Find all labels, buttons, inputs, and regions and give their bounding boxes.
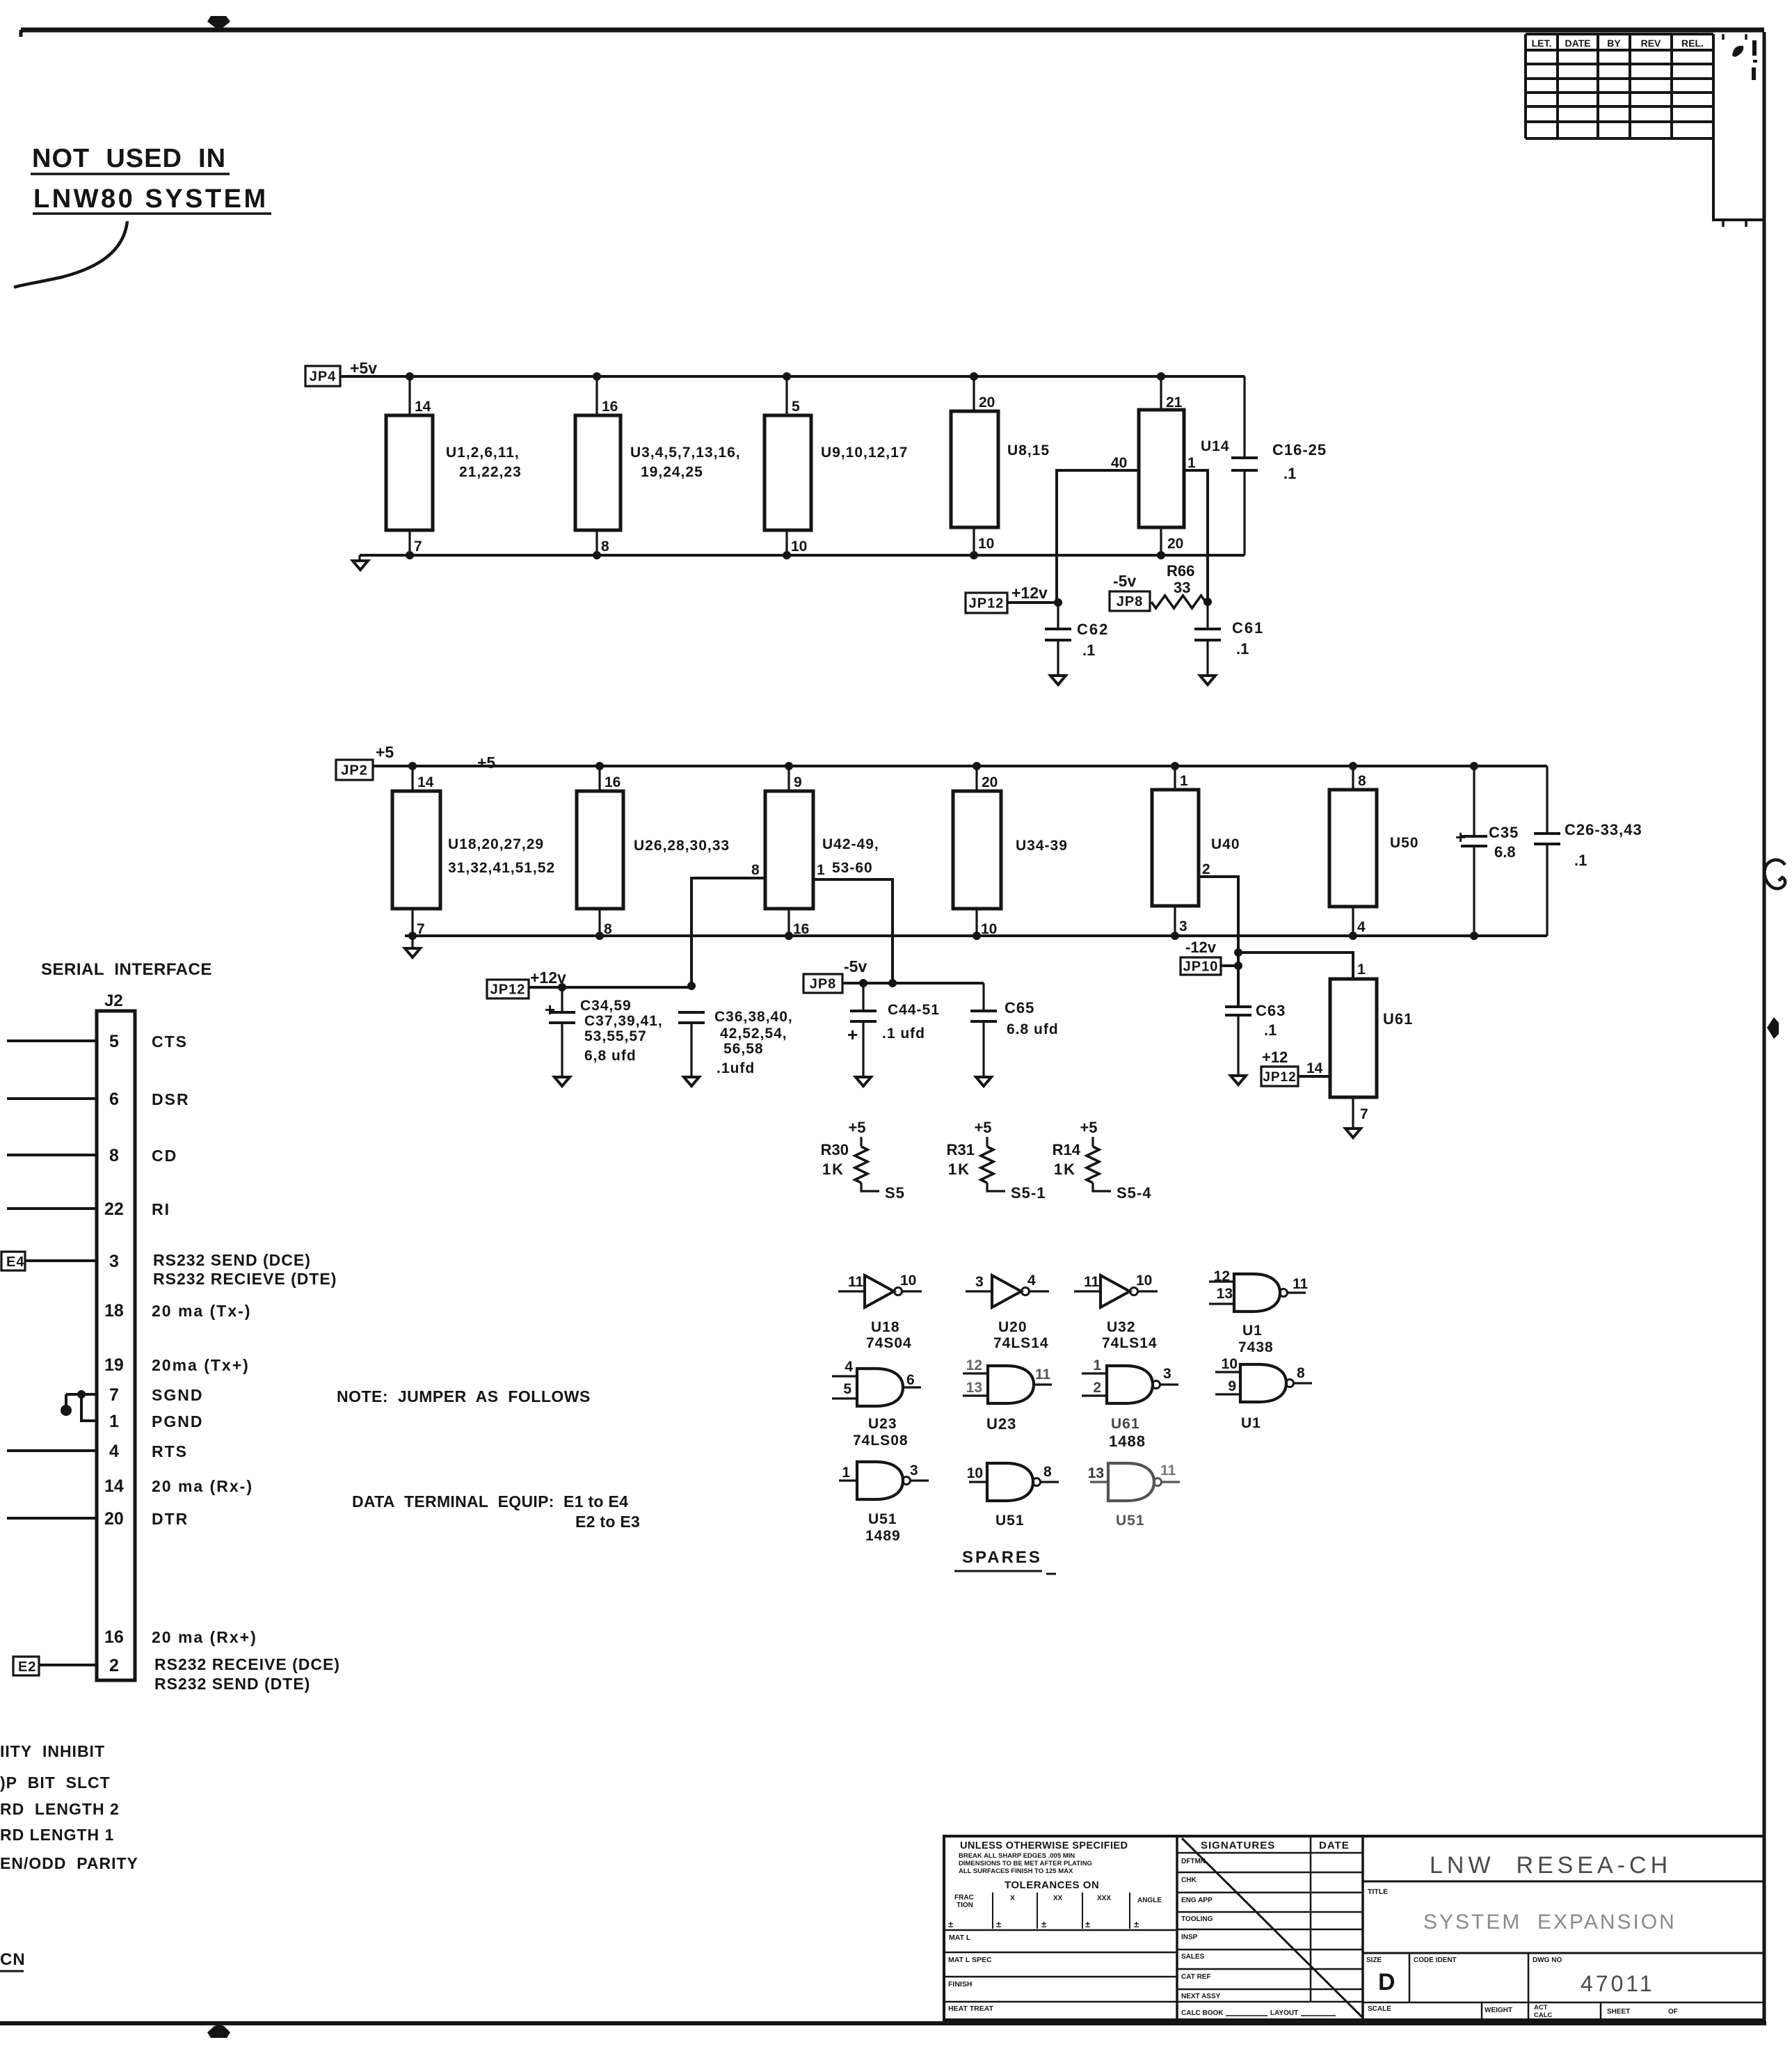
svg-text:20: 20 [979, 395, 995, 411]
capacitor C35 6.8 [1455, 766, 1519, 936]
jumper post E2 [13, 1657, 97, 1675]
svg-text:BY: BY [1607, 38, 1621, 49]
spare gate U51 (third) [1088, 1463, 1180, 1529]
capacitor C63 .1 [1225, 1002, 1286, 1076]
svg-text:R31: R31 [947, 1141, 975, 1158]
svg-text:20: 20 [104, 1509, 124, 1529]
svg-text:20ma (Tx+): 20ma (Tx+) [152, 1356, 250, 1374]
svg-text:U40: U40 [1211, 836, 1240, 852]
capacitor C36,38,40,42,52,54,56,58 .1ufd [678, 1009, 793, 1077]
svg-text:11: 11 [1084, 1274, 1100, 1290]
handwritten mark G on right border [1765, 860, 1786, 888]
svg-text:S5: S5 [885, 1184, 905, 1202]
J2 pin 6 DSR [7, 1090, 190, 1109]
svg-text:1: 1 [1357, 962, 1366, 978]
svg-text:8: 8 [109, 1146, 119, 1165]
svg-text:16: 16 [605, 774, 621, 790]
node +12v junction row1 [1054, 598, 1062, 607]
spare gate U51 (second) [967, 1463, 1059, 1529]
svg-text:RI: RI [152, 1200, 170, 1218]
svg-text:R14: R14 [1053, 1141, 1081, 1158]
svg-text:ALL SURFACES FINISH TO 125 MAX: ALL SURFACES FINISH TO 125 MAX [959, 1867, 1073, 1875]
svg-text:2: 2 [1202, 861, 1210, 877]
svg-text:.1: .1 [1264, 1021, 1277, 1039]
svg-text:BREAK ALL SHARP EDGES .005 MI: BREAK ALL SHARP EDGES .005 MIN [959, 1852, 1075, 1860]
svg-text:FINISH: FINISH [948, 1980, 972, 1989]
svg-text:XX: XX [1053, 1895, 1063, 1902]
svg-text:1: 1 [1093, 1357, 1101, 1373]
svg-text:R66: R66 [1167, 562, 1194, 580]
svg-text:U26,28,30,33: U26,28,30,33 [634, 838, 730, 854]
svg-text:ENG APP: ENG APP [1181, 1897, 1213, 1904]
svg-text:18: 18 [104, 1301, 124, 1321]
wire U14 pin1 to -5v node [1184, 470, 1208, 602]
svg-text:U1,2,6,11,: U1,2,6,11, [446, 445, 520, 461]
svg-text:J2: J2 [104, 991, 123, 1010]
svg-text:RTS: RTS [152, 1442, 188, 1460]
J2 pin 19 20ma (Tx+) [104, 1355, 250, 1375]
svg-text:±: ± [996, 1919, 1001, 1929]
ground symbol C36 [684, 1077, 699, 1086]
svg-text:-12v: -12v [1185, 939, 1217, 956]
svg-text:DSR: DSR [152, 1090, 190, 1108]
svg-text:40: 40 [1111, 455, 1127, 471]
wire U14 pin40 to +12v node [1057, 470, 1139, 603]
resistor R14 1K [1053, 1119, 1152, 1202]
svg-text:22: 22 [104, 1200, 124, 1219]
svg-text:.1: .1 [1236, 640, 1249, 658]
svg-text:+5: +5 [1080, 1119, 1097, 1136]
svg-text:U9,10,12,17: U9,10,12,17 [821, 445, 908, 461]
svg-text:JP2: JP2 [341, 763, 368, 779]
svg-text:C62: C62 [1077, 621, 1109, 638]
spare NAND gate U1 (second) [1215, 1356, 1312, 1431]
svg-text:±: ± [1085, 1919, 1090, 1929]
svg-text:JP8: JP8 [1117, 594, 1144, 609]
IC U40 [1152, 766, 1240, 936]
svg-text:5: 5 [109, 1032, 119, 1051]
svg-text:20 ma (Tx-): 20 ma (Tx-) [152, 1302, 251, 1320]
node ground junctions row2 [408, 932, 1478, 940]
svg-text:U51: U51 [868, 1511, 897, 1527]
svg-text:56,58: 56,58 [723, 1041, 764, 1057]
svg-text:8: 8 [601, 539, 609, 555]
svg-text:±: ± [948, 1919, 953, 1929]
ground symbol row2 left [405, 936, 420, 957]
resistor R66 33 [1151, 562, 1206, 608]
jumper JP12 row2 [487, 980, 529, 998]
svg-text:20: 20 [1167, 536, 1183, 552]
revision table [1526, 34, 1764, 227]
leader curve from note [14, 221, 127, 287]
wire JP10 to -12v node [1221, 964, 1238, 967]
svg-text:74LS14: 74LS14 [1102, 1335, 1158, 1351]
spare inverter U32 74LS14 [1074, 1273, 1158, 1351]
wire -12v node to U61 pin1 [1238, 953, 1353, 979]
svg-text:10: 10 [1136, 1273, 1152, 1289]
svg-text:11: 11 [1035, 1366, 1051, 1382]
svg-text:JP12: JP12 [969, 596, 1005, 612]
svg-text:UNLESS OTHERWISE SPECIFIED: UNLESS OTHERWISE SPECIFIED [960, 1840, 1128, 1851]
svg-text:16: 16 [602, 399, 618, 415]
svg-text:REL.: REL. [1681, 38, 1704, 49]
svg-text:.1 ufd: .1 ufd [882, 1026, 925, 1042]
IC block U9,10,12,17 [765, 376, 908, 555]
svg-text:TION: TION [957, 1902, 973, 1909]
svg-text:PGND: PGND [152, 1412, 203, 1431]
J2 pin 16 20 ma (Rx+) [104, 1627, 257, 1647]
svg-text:U14: U14 [1201, 438, 1230, 454]
svg-text:+5: +5 [477, 754, 495, 772]
wire ground rail row1 [360, 554, 1245, 557]
svg-text:RS232 RECEIVE (DCE): RS232 RECEIVE (DCE) [154, 1655, 340, 1673]
wire JP12 to U61 pin14 [1298, 1075, 1330, 1078]
svg-text:9: 9 [794, 774, 802, 790]
svg-text:C63: C63 [1256, 1002, 1286, 1019]
spare NAND gate U1 7438 [1209, 1268, 1309, 1355]
svg-text:E2 to E3: E2 to E3 [575, 1513, 640, 1531]
capacitor C61 [1194, 602, 1264, 676]
svg-text:6.8: 6.8 [1494, 843, 1516, 861]
wire U42-49 pin8 to +12v node [691, 878, 765, 987]
svg-text:U61: U61 [1111, 1416, 1140, 1432]
svg-text:RD LENGTH 1: RD LENGTH 1 [0, 1826, 114, 1844]
svg-text:LNW RESEA-CH: LNW RESEA-CH [1430, 1852, 1672, 1879]
svg-text:C34,59: C34,59 [580, 998, 632, 1014]
J2 pin 18 20 ma (Tx-) [104, 1301, 251, 1321]
svg-text:C37,39,41,: C37,39,41, [584, 1013, 663, 1029]
svg-text:21: 21 [1166, 395, 1183, 411]
svg-text:U3,4,5,7,13,16,: U3,4,5,7,13,16, [630, 445, 741, 461]
svg-text:1K: 1K [1054, 1161, 1076, 1178]
svg-text:E2: E2 [18, 1659, 36, 1675]
svg-text:53-60: 53-60 [832, 860, 873, 876]
svg-text:5: 5 [843, 1381, 851, 1397]
svg-text:3: 3 [1179, 918, 1187, 934]
svg-text:8: 8 [604, 921, 612, 937]
svg-text:SYSTEM EXPANSION: SYSTEM EXPANSION [1423, 1911, 1677, 1934]
svg-text:JP10: JP10 [1183, 959, 1219, 975]
svg-text:10: 10 [791, 539, 807, 555]
svg-text:X: X [1010, 1895, 1015, 1902]
svg-text:ACT: ACT [1534, 2004, 1548, 2011]
J2 pin2 labels RS232 RECEIVE/SEND [154, 1655, 340, 1693]
svg-text:DATE: DATE [1565, 38, 1590, 49]
svg-text:4: 4 [109, 1442, 119, 1461]
svg-text:SALES: SALES [1181, 1953, 1205, 1961]
resistor R31 1K [947, 1119, 1046, 1202]
svg-text:C44-51: C44-51 [888, 1002, 940, 1018]
svg-text:S5-4: S5-4 [1117, 1184, 1151, 1202]
svg-text:S5-1: S5-1 [1011, 1184, 1046, 1202]
spare inverter U18 74S04 [838, 1273, 922, 1351]
svg-text:4: 4 [1027, 1273, 1036, 1289]
svg-text:11: 11 [1160, 1463, 1176, 1479]
svg-text:SIGNATURES: SIGNATURES [1201, 1840, 1275, 1851]
svg-text:INSP: INSP [1181, 1934, 1198, 1941]
svg-text:47011: 47011 [1581, 1971, 1655, 1996]
node -12v junctions [1234, 948, 1242, 970]
spare AND gate U23 (second) [963, 1357, 1052, 1433]
svg-text:14: 14 [1306, 1060, 1323, 1076]
svg-text:C26-33,43: C26-33,43 [1565, 821, 1642, 838]
svg-text:14: 14 [415, 399, 431, 415]
svg-text:C35: C35 [1489, 824, 1519, 841]
jumper JP12 row1 [966, 593, 1007, 613]
capacitor C62 [1045, 603, 1109, 676]
svg-text:SHEET: SHEET [1607, 2008, 1630, 2016]
svg-text:12: 12 [1214, 1268, 1230, 1284]
IC block U1,2,6,11,21,22,23 [386, 376, 522, 555]
svg-text:U1: U1 [1242, 1323, 1263, 1339]
svg-text:U51: U51 [1116, 1513, 1145, 1529]
svg-text:3: 3 [910, 1463, 918, 1479]
svg-text:.1: .1 [1082, 641, 1095, 659]
svg-text:10: 10 [1222, 1356, 1238, 1372]
svg-text:JP8: JP8 [810, 977, 837, 992]
jumper JP10 [1181, 957, 1221, 975]
svg-text:12: 12 [966, 1357, 982, 1373]
J2 pin 4 RTS [7, 1442, 188, 1461]
drawing title SYSTEM EXPANSION [1363, 1888, 1764, 1953]
svg-text:74LS08: 74LS08 [853, 1433, 909, 1449]
svg-text:C16-25: C16-25 [1272, 441, 1327, 459]
svg-text:-5v: -5v [844, 957, 867, 975]
svg-text:1K: 1K [822, 1161, 845, 1178]
svg-text:7: 7 [414, 539, 422, 555]
svg-text:U20: U20 [998, 1319, 1027, 1335]
svg-text:42,52,54,: 42,52,54, [720, 1026, 787, 1042]
svg-text:7438: 7438 [1238, 1339, 1274, 1355]
IC U14 [1139, 376, 1230, 555]
svg-text:SCALE: SCALE [1368, 2005, 1391, 2013]
spare inverter U20 74LS14 [966, 1273, 1049, 1351]
jumper post E4 [1, 1252, 97, 1270]
ground symbol row1 left [353, 555, 368, 570]
ground symbol C44-51 [856, 1077, 871, 1086]
svg-text:MAT L: MAT L [949, 1934, 971, 1942]
svg-text:HEAT TREAT: HEAT TREAT [948, 2005, 994, 2013]
svg-text:CAT REF: CAT REF [1181, 1973, 1211, 1981]
wire U61 pin7 to ground [1352, 1097, 1354, 1129]
note NOT USED IN LNW80 SYSTEM [31, 144, 271, 214]
svg-text:74S04: 74S04 [866, 1335, 912, 1351]
svg-text:+5: +5 [848, 1119, 865, 1136]
svg-text:U1: U1 [1241, 1415, 1261, 1431]
svg-text:JP12: JP12 [490, 982, 526, 998]
svg-text:EN/ODD PARITY: EN/ODD PARITY [0, 1854, 138, 1872]
svg-text:CHK: CHK [1181, 1876, 1197, 1884]
svg-text:7: 7 [1360, 1106, 1368, 1122]
svg-text:.1ufd: .1ufd [717, 1060, 755, 1076]
svg-text:U61: U61 [1383, 1010, 1413, 1028]
IC block U42-49,53-60 [765, 766, 879, 937]
svg-text:7: 7 [109, 1385, 119, 1405]
svg-text:U18,20,27,29: U18,20,27,29 [448, 836, 544, 852]
ground symbol C63 [1231, 1076, 1246, 1085]
J2 pin 5 CTS [7, 1032, 188, 1051]
J2 pin 3 [109, 1252, 119, 1271]
svg-text:74LS14: 74LS14 [993, 1335, 1049, 1351]
svg-text:LAYOUT: LAYOUT [1270, 2009, 1298, 2017]
svg-text:U23: U23 [986, 1415, 1016, 1433]
svg-text:10: 10 [981, 921, 997, 937]
svg-text:R30: R30 [821, 1141, 849, 1158]
svg-text:33: 33 [1174, 579, 1190, 596]
svg-text:+: + [847, 1024, 858, 1045]
svg-text:4: 4 [1357, 919, 1366, 935]
svg-text:6.8 ufd: 6.8 ufd [1007, 1021, 1059, 1037]
svg-text:16: 16 [104, 1627, 124, 1647]
svg-text:)P BIT SLCT: )P BIT SLCT [0, 1774, 111, 1792]
svg-text:IITY INHIBIT: IITY INHIBIT [0, 1742, 105, 1760]
jumper JP8 row1 [1110, 591, 1150, 611]
svg-text:SIZE: SIZE [1366, 1957, 1382, 1964]
connector J2 [97, 991, 135, 1680]
svg-text:10: 10 [900, 1273, 916, 1289]
svg-text:13: 13 [1088, 1465, 1104, 1481]
svg-text:10: 10 [978, 536, 994, 552]
svg-text:-5v: -5v [1113, 572, 1136, 590]
svg-text:JP4: JP4 [310, 369, 337, 385]
svg-text:LET.: LET. [1532, 38, 1552, 49]
svg-text:1488: 1488 [1109, 1433, 1146, 1450]
svg-text:6,8 ufd: 6,8 ufd [584, 1048, 637, 1064]
svg-text:1: 1 [1187, 455, 1196, 471]
svg-text:ANGLE: ANGLE [1137, 1897, 1162, 1904]
IC U50 [1329, 766, 1419, 936]
J2 pin 8 CD [7, 1146, 177, 1165]
svg-text:C36,38,40,: C36,38,40, [714, 1009, 793, 1025]
svg-text:±: ± [1134, 1919, 1139, 1929]
IC block U26,28,30,33 [577, 766, 730, 937]
jumper JP4 [305, 366, 340, 386]
svg-text:TOLERANCES ON: TOLERANCES ON [1005, 1879, 1099, 1891]
svg-text:13: 13 [1217, 1286, 1233, 1302]
tolerance panel [944, 1840, 1177, 2013]
svg-text:NOTE: JUMPER AS FOLLOWS: NOTE: JUMPER AS FOLLOWS [337, 1387, 591, 1405]
svg-text:C61: C61 [1232, 619, 1264, 637]
svg-text:5: 5 [792, 399, 800, 415]
resistor R30 1K [821, 1119, 905, 1202]
svg-text:DTR: DTR [152, 1510, 189, 1528]
svg-text:SGND: SGND [152, 1386, 203, 1404]
company name LNW RESEARCH [1363, 1852, 1764, 1881]
svg-text:OF: OF [1668, 2008, 1678, 2016]
label SPARES [954, 1548, 1056, 1574]
svg-text:11: 11 [848, 1274, 864, 1290]
svg-text:10: 10 [967, 1465, 983, 1481]
svg-text:DATA TERMINAL EQUIP: E1 to: DATA TERMINAL EQUIP: E1 to E4 [352, 1492, 628, 1511]
svg-text:14: 14 [104, 1476, 124, 1496]
svg-text:CD: CD [152, 1147, 177, 1165]
ground symbol C65 [976, 1077, 991, 1086]
svg-text:8: 8 [1358, 773, 1366, 789]
svg-text:DATE: DATE [1319, 1840, 1350, 1851]
wire U40 pin2 to -12v node [1199, 877, 1238, 1007]
svg-text:RS232 SEND (DTE): RS232 SEND (DTE) [154, 1675, 310, 1693]
svg-text:U18: U18 [871, 1319, 900, 1335]
svg-text:SPARES: SPARES [962, 1548, 1042, 1567]
svg-text:4: 4 [845, 1359, 853, 1375]
svg-text:20 ma (Rx+): 20 ma (Rx+) [152, 1628, 257, 1646]
capacitor C26-33,43 .1 [1534, 766, 1642, 936]
svg-text:6: 6 [906, 1372, 915, 1388]
svg-text:U8,15: U8,15 [1007, 443, 1050, 459]
svg-text:7: 7 [417, 921, 425, 937]
svg-text:U23: U23 [868, 1416, 897, 1432]
svg-text:.1: .1 [1574, 852, 1587, 869]
node +5 junctions row2 [408, 762, 1478, 770]
svg-text:19,24,25: 19,24,25 [641, 464, 703, 480]
svg-text:E4: E4 [6, 1254, 24, 1270]
scale strip [1368, 2002, 1678, 2020]
note DATA TERMINAL EQUIP [352, 1492, 640, 1531]
IC block U3,4,5,7,13,16,19,24,25 [575, 376, 741, 555]
svg-text:+5v: +5v [350, 359, 377, 377]
capacitor C44-51 .1ufd [847, 983, 940, 1077]
svg-text:1: 1 [109, 1412, 119, 1431]
clipped label CN [0, 1950, 26, 1971]
wire -5v net row2 [842, 982, 984, 985]
svg-text:11: 11 [1293, 1276, 1309, 1292]
J2 pin 7 SGND [109, 1385, 203, 1405]
IC block U34-39 [953, 766, 1068, 937]
wire +12v net row2 [529, 986, 691, 989]
node +12v junctions row2 [558, 982, 696, 991]
J2 pin 14 20 ma (Rx-) [104, 1476, 253, 1496]
svg-text:U51: U51 [995, 1513, 1025, 1529]
svg-text:XXX: XXX [1097, 1895, 1111, 1902]
svg-text:U34-39: U34-39 [1016, 838, 1068, 854]
svg-text:CODE IDENT: CODE IDENT [1414, 1957, 1457, 1964]
svg-text:+12v: +12v [1011, 584, 1048, 602]
svg-text:53,55,57: 53,55,57 [584, 1028, 647, 1044]
svg-text:U50: U50 [1390, 835, 1419, 851]
svg-text:20: 20 [982, 774, 998, 790]
J2 pin 20 DTR [7, 1509, 189, 1529]
J2 pin 2 [109, 1656, 119, 1675]
svg-text:TOOLING: TOOLING [1181, 1915, 1213, 1923]
svg-text:1: 1 [842, 1465, 850, 1481]
svg-text:RS232 RECIEVE (DTE): RS232 RECIEVE (DTE) [153, 1270, 337, 1288]
wire U42-49 pin1 to -5v node [813, 879, 893, 983]
svg-text:21,22,23: 21,22,23 [459, 464, 522, 480]
svg-text:MAT L SPEC: MAT L SPEC [948, 1956, 992, 1964]
title block [944, 1836, 1764, 2020]
capacitor C16-25 [1231, 376, 1327, 555]
IC U61 [1330, 979, 1413, 1097]
svg-text:CALC BOOK: CALC BOOK [1181, 2009, 1224, 2017]
jumper JP2 [336, 760, 373, 780]
size and drawing number [1363, 1953, 1764, 2002]
svg-text:+5: +5 [376, 743, 394, 761]
svg-text:31,32,41,51,52: 31,32,41,51,52 [448, 860, 555, 876]
ground symbol C62 [1050, 676, 1066, 685]
svg-text:U42-49,: U42-49, [822, 836, 879, 852]
node +5v junctions row1 [406, 372, 1165, 381]
J2 pin 1 PGND [109, 1412, 203, 1431]
svg-text:16: 16 [793, 921, 809, 937]
ground symbol C34 [554, 1077, 570, 1086]
svg-text:LNW80 SYSTEM: LNW80 SYSTEM [33, 184, 269, 214]
capacitor C34,59,C37,39,41,53,55,57 6.8ufd [545, 987, 663, 1077]
svg-text:3: 3 [975, 1274, 984, 1290]
spare AND gate U23 74LS08 [832, 1359, 921, 1449]
svg-text:20 ma (Rx-): 20 ma (Rx-) [152, 1477, 253, 1495]
svg-text:NEXT ASSY: NEXT ASSY [1181, 1993, 1221, 2000]
svg-text:WEIGHT: WEIGHT [1485, 2007, 1512, 2014]
